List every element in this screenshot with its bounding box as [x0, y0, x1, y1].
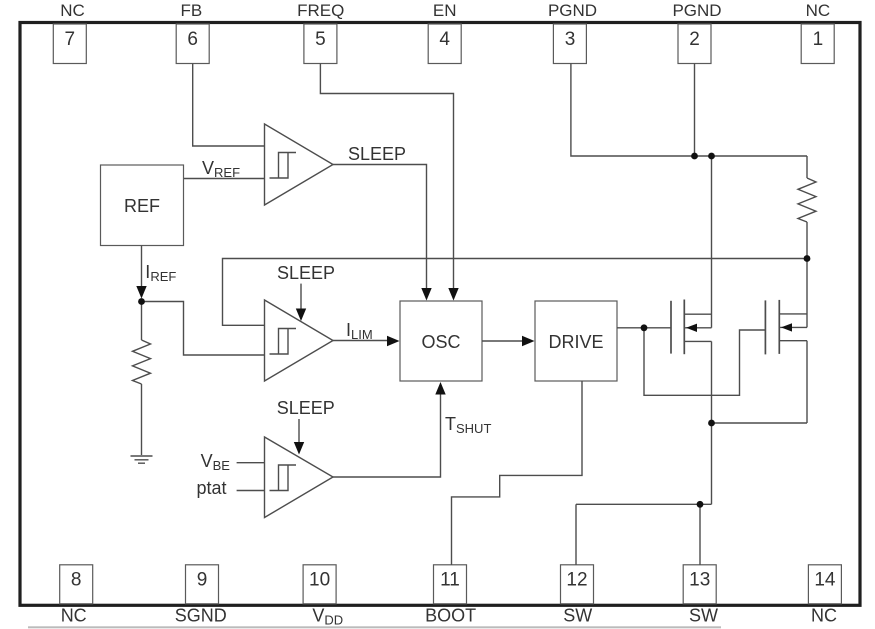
- arrowhead OSC to DRIVE: [522, 336, 535, 346]
- wire pin12 riser: [575, 504, 577, 565]
- svg-text:VREF: VREF: [202, 158, 240, 180]
- arrowhead Q2 body: [781, 323, 792, 331]
- svg-text:SW: SW: [689, 606, 718, 626]
- DRIVE block: [535, 301, 617, 381]
- wire SLEEP arrow into U3: [298, 419, 300, 443]
- svg-text:9: 9: [197, 570, 208, 591]
- svg-text:NC: NC: [806, 1, 831, 20]
- hysteresis symbol U2: [270, 329, 297, 355]
- transistor Q2 body stub: [779, 326, 807, 328]
- junction source node: [708, 420, 715, 427]
- svg-text:EN: EN: [433, 1, 457, 20]
- pin 12 box: [561, 565, 594, 604]
- pin 3 box: [553, 24, 586, 64]
- svg-text:7: 7: [65, 29, 76, 50]
- svg-text:IREF: IREF: [145, 262, 176, 284]
- svg-text:NC: NC: [60, 1, 85, 20]
- junction IREF node: [138, 298, 145, 305]
- svg-text:SLEEP: SLEEP: [277, 263, 335, 283]
- svg-text:2: 2: [689, 29, 700, 50]
- svg-text:6: 6: [187, 29, 198, 50]
- wire Q2 drain to feedback node: [806, 259, 808, 328]
- pin 10 box: [303, 565, 336, 604]
- svg-text:3: 3: [565, 29, 576, 50]
- wire IREF from REF: [141, 246, 143, 287]
- pin 8 box: [60, 565, 93, 604]
- pin 7 box: [53, 24, 86, 64]
- resistor R2: [798, 178, 816, 222]
- wire SW horizontal: [576, 503, 712, 505]
- svg-text:5: 5: [315, 29, 326, 50]
- wire Q1 drain to PGND rail: [711, 156, 713, 328]
- svg-text:NC: NC: [61, 606, 87, 626]
- svg-text:SW: SW: [563, 606, 592, 626]
- svg-text:11: 11: [440, 570, 460, 591]
- svg-text:PGND: PGND: [548, 1, 597, 20]
- arrowhead TSHUT into OSC: [435, 382, 445, 395]
- pin 1 box: [801, 24, 834, 64]
- arrowhead FREQ into OSC: [448, 288, 458, 301]
- resistor R1: [133, 340, 151, 384]
- svg-text:SLEEP: SLEEP: [277, 398, 335, 418]
- transistor Q2 channel bar: [778, 300, 780, 354]
- svg-text:DRIVE: DRIVE: [548, 332, 603, 352]
- svg-text:ptat: ptat: [197, 478, 227, 498]
- pin 6 box: [176, 24, 209, 64]
- wire OSC to DRIVE: [482, 340, 524, 342]
- hysteresis symbol U1: [270, 153, 297, 179]
- wire DRIVE output to gate Q1: [617, 327, 671, 329]
- wire BOOT staircase DRIVE to pin11: [452, 381, 583, 565]
- pin 11 box: [434, 565, 467, 604]
- junction DRIVE gate node: [641, 324, 648, 331]
- transistor Q1 body stub: [684, 327, 711, 329]
- hysteresis symbol U3: [270, 465, 297, 491]
- transistor Q1 gate bar: [670, 301, 672, 354]
- comparator U2 (current limit): [265, 300, 334, 381]
- svg-text:VBE: VBE: [201, 451, 231, 473]
- pin 13 box: [683, 565, 716, 604]
- svg-text:VDD: VDD: [312, 606, 343, 628]
- wire node IREF to U2 input: [142, 302, 265, 356]
- wire gate routing to Q2: [644, 328, 765, 396]
- svg-text:ILIM: ILIM: [346, 320, 373, 342]
- wire SW node vertical: [711, 423, 713, 504]
- wire PGND pin3 to drain rail: [571, 64, 807, 157]
- wire Q2 source down: [806, 341, 808, 423]
- svg-text:OSC: OSC: [421, 332, 460, 352]
- transistor Q1 drain stub: [684, 313, 711, 315]
- svg-text:REF: REF: [124, 196, 160, 216]
- wire SLEEP arrow into U2: [300, 284, 302, 309]
- junction pin2 PGND rail: [691, 153, 698, 160]
- ground: [131, 456, 153, 463]
- wire FB pin6 to comparator U1: [193, 64, 265, 147]
- svg-text:PGND: PGND: [672, 1, 721, 20]
- wire FREQ pin5 to OSC top: [320, 64, 453, 289]
- caption fragment bottom: [28, 626, 721, 628]
- wire SLEEP from U1 to OSC top: [333, 165, 427, 289]
- svg-text:8: 8: [71, 570, 82, 591]
- arrowhead IREF: [136, 286, 146, 299]
- wire PGND pin2 drop: [694, 64, 696, 157]
- transistor Q2 drain stub: [779, 313, 807, 315]
- transistor Q2 gate bar: [764, 300, 766, 354]
- resistor R1 top lead: [141, 302, 143, 341]
- wire ptat input: [237, 490, 265, 492]
- resistor R2 bottom lead: [806, 222, 808, 259]
- arrowhead SLEEP into U2: [296, 309, 306, 322]
- transistor Q2 source stub: [779, 340, 807, 342]
- svg-text:FREQ: FREQ: [297, 1, 344, 20]
- arrowhead Q1 body: [686, 324, 697, 332]
- arrowhead ILIM into OSC: [387, 336, 400, 346]
- svg-text:12: 12: [566, 570, 587, 591]
- transistor Q1 source stub: [684, 340, 711, 342]
- svg-text:FB: FB: [181, 1, 203, 20]
- arrowhead SLEEP into OSC: [421, 288, 431, 301]
- comparator U3 (thermal): [265, 437, 334, 518]
- junction Q1 drain rail: [708, 153, 715, 160]
- REF block: [101, 165, 184, 246]
- wire VBE input: [237, 462, 265, 464]
- pin 9 box: [186, 565, 219, 604]
- svg-text:TSHUT: TSHUT: [445, 414, 491, 436]
- arrowhead SLEEP into U3: [294, 442, 304, 455]
- junction feedback node: [804, 255, 811, 262]
- svg-text:SLEEP: SLEEP: [348, 144, 406, 164]
- pin 2 box: [678, 24, 711, 64]
- comparator U1 (sleep comparator): [265, 124, 334, 205]
- svg-text:14: 14: [814, 570, 836, 591]
- pin 14 box: [808, 565, 841, 604]
- svg-text:SGND: SGND: [175, 606, 227, 626]
- svg-text:13: 13: [689, 570, 710, 591]
- wire TSHUT U3 to OSC bottom: [333, 394, 441, 477]
- wire pin13 riser: [699, 504, 701, 565]
- svg-text:BOOT: BOOT: [425, 606, 476, 626]
- wire ILIM U2 to OSC: [333, 340, 389, 342]
- wire Q1 source down: [711, 341, 713, 423]
- resistor R2 top lead: [806, 156, 808, 178]
- wire source bridge Q1-Q2: [712, 422, 808, 424]
- OSC block: [400, 301, 482, 381]
- wire VREF from REF to comparator U1: [184, 178, 265, 180]
- junction SW node: [697, 501, 704, 508]
- pin 4 box: [428, 24, 461, 64]
- svg-text:10: 10: [309, 570, 330, 591]
- pin 5 box: [304, 24, 337, 64]
- svg-text:4: 4: [439, 29, 450, 50]
- wire feedback rail: [223, 259, 808, 326]
- svg-text:NC: NC: [811, 606, 837, 626]
- transistor Q1 channel bar: [683, 300, 685, 355]
- resistor R1 bottom lead: [141, 384, 143, 455]
- svg-text:1: 1: [813, 29, 824, 50]
